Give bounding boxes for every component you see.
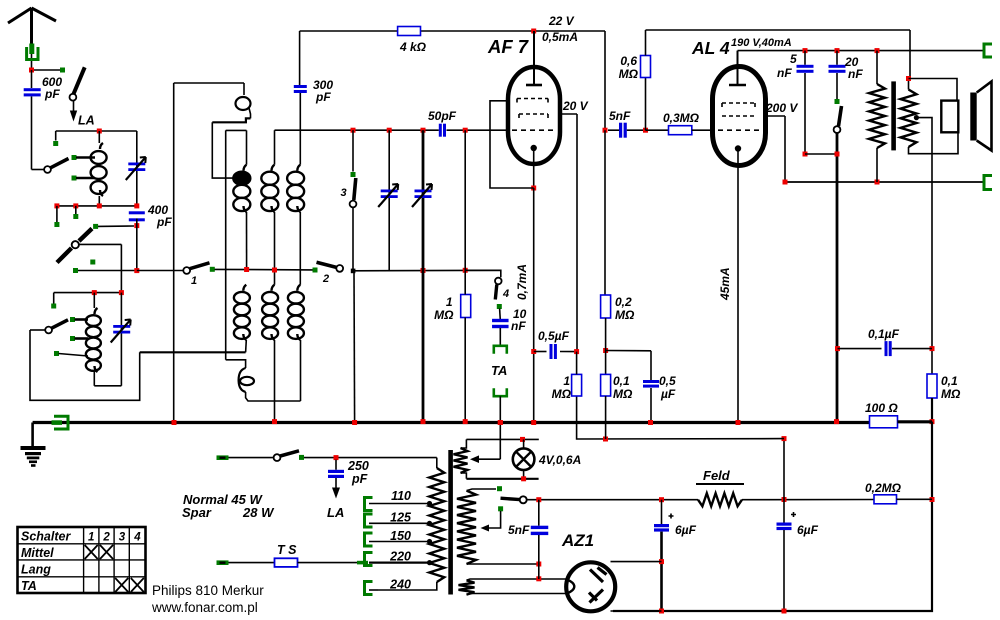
switch pivot tone [834,126,841,133]
wire 1M to bus [464,318,466,422]
wire TS to tap [298,562,363,564]
capacitor 50pF [439,124,442,137]
switch pivot 3 [350,201,357,208]
switch arm 2 [317,262,337,267]
inductor HV winding [457,491,476,564]
wire [534,351,547,353]
wire LW return path [30,330,140,400]
wire tap 220 [369,561,429,563]
wire [464,270,466,294]
terminal TS [217,560,229,565]
table Schalter [18,527,146,593]
wire 5nF [538,500,540,526]
svg-text:6µF: 6µF [797,523,819,537]
wire mains [229,457,274,459]
svg-text:Spar: Spar [182,505,212,520]
wire varcap L1 [136,131,138,206]
junction coil1/coilA [244,267,249,272]
Feld underline [696,483,744,485]
tube AL4 envelope [713,67,766,166]
wire [608,129,619,131]
switch arm 1 [190,263,210,269]
wire primary top [436,458,438,468]
junction [803,152,808,157]
inductor feedback loop coil [239,368,246,392]
AF7 plate [526,84,542,87]
junction [574,349,579,354]
svg-text:2: 2 [102,532,110,544]
wire [576,352,578,375]
terminal arrow 220 [357,561,368,565]
wire to terminal [34,69,60,71]
junction antenna node [29,68,34,73]
AF7 cathode [531,145,537,151]
terminal [53,141,58,146]
wire [499,328,501,346]
wire into coil [98,131,100,143]
wire TA ground [499,396,501,421]
wire coil1 bottom [246,212,248,270]
junction [783,180,788,185]
OT secondary tap [914,115,919,120]
junction [536,562,541,567]
terminal mains switch [217,455,229,460]
LA arrow [332,488,340,499]
speaker cone [977,82,992,151]
tap dot 125 [427,521,432,526]
wire tap down [916,118,932,349]
wire right rail + bottom rail [613,422,932,611]
wire 0.1uF right [892,348,932,350]
wire 0.1uF left [838,348,882,350]
svg-text:0,1: 0,1 [613,374,630,388]
AF7 grid 1 dashed [517,99,548,104]
terminal switch4 [497,304,502,309]
AZ1 anode 2 [589,590,603,603]
inductor IF coil 3 [297,165,300,171]
wire down to LW coil [120,244,122,292]
svg-text:5nF: 5nF [508,523,530,537]
switch pivot LA [70,94,77,101]
wire [836,73,838,99]
wire B+ down [909,30,911,79]
AL4 cathode [735,145,741,151]
svg-text:6µF: 6µF [675,523,697,537]
switch arm 3 [354,178,356,200]
speaker driver [941,101,958,133]
terminal tone switch [835,99,840,104]
terminal TA lower [494,388,507,396]
junction dot switch 2 [351,269,356,274]
svg-text:28 W: 28 W [242,505,275,520]
junction bus [172,420,177,425]
inductor mains primary [429,468,444,582]
svg-text:45mA: 45mA [718,267,732,301]
wire tap 1 [76,156,95,159]
svg-text:MΩ: MΩ [941,387,961,401]
wire coil2 bottom [274,212,276,270]
wire screen chain [604,130,606,295]
antenna [8,8,56,44]
inductor IF coil 2 [272,165,275,171]
wire [804,51,806,65]
wire [804,73,806,154]
junction bus [531,420,536,425]
resistor 0.1 MOhm bias [601,374,611,396]
wire tap to coil1 [212,122,240,178]
junction coil L1 top [97,129,102,134]
junction AZ1 out [659,559,664,564]
resistor 4 kOhm [398,27,421,36]
resistor 0.1 MOhm out [927,374,937,398]
svg-text:250: 250 [347,459,369,473]
wire grid return line [353,269,501,272]
wire 400pF to LW line [136,219,138,271]
tube AZ1 envelope [566,562,615,611]
wire tap 150 [369,541,429,543]
svg-text:MΩ: MΩ [552,387,572,401]
resistor 0.2 MOhm screen [601,295,611,318]
junction [421,268,426,273]
svg-text:AL 4: AL 4 [691,38,730,58]
wire to AL4 grid [692,129,713,131]
junction [875,48,880,53]
svg-text:4: 4 [133,532,141,544]
svg-text:TA: TA [21,579,37,593]
switch arm 4 [495,285,497,300]
svg-text:0,2: 0,2 [615,295,632,309]
wire 1M top [464,130,466,270]
wire lamp top lead [523,439,525,448]
wire switch to LC [79,243,121,245]
plus sign [791,512,796,517]
switch arm mains [280,451,299,456]
switch pivot band [44,166,51,173]
junction [835,48,840,53]
wire coil2 top [274,130,276,165]
svg-text:1: 1 [563,374,570,388]
variable capacitor LW [113,325,130,328]
wire to speaker top [909,79,958,101]
svg-text:MΩ: MΩ [615,308,635,322]
wire coil3 to coilC [299,212,301,285]
wire 6uF down thick [660,532,663,611]
wire [783,439,785,500]
wire to band switch [32,169,45,171]
terminal [54,222,59,227]
svg-text:0,1: 0,1 [941,374,958,388]
svg-text:3: 3 [119,532,126,544]
wire coil L1 top [56,130,137,132]
svg-text:240: 240 [389,578,411,592]
wire coupling top [174,82,244,84]
svg-text:nF: nF [777,66,792,80]
wire varcap LW [120,293,122,386]
wire stub [55,131,57,141]
inductor osc coil A [243,285,246,291]
wire [783,500,785,523]
junction [835,346,840,351]
wire [605,318,607,374]
switch arm wave selector [57,229,92,263]
junction [906,76,911,81]
svg-text:pF: pF [351,472,368,486]
wire to AF7 grid [447,129,509,131]
junction coil2/coilB [272,268,277,273]
junction grid AL4 [643,128,648,133]
wire to TA switch [465,270,501,277]
arrow to 4V winding [479,458,500,460]
wire [661,500,663,524]
inductor osc coil C [297,285,300,291]
wire HT line [527,499,699,501]
wire switch3 [352,130,354,171]
switch arm tone [839,106,842,126]
wire coil L1 bottom rail [57,205,137,207]
svg-text:Lang: Lang [21,563,51,577]
resistor 0.6 MOhm [641,56,651,78]
switch pivot mains [274,454,281,461]
capacitor 5nF coupling [619,123,622,138]
svg-text:1: 1 [88,532,94,544]
OT core [891,81,896,150]
wire tone thick down [836,133,839,422]
switch pivot voltage [520,496,527,503]
switch pivot 4 [495,278,502,285]
inductor 4V winding [454,448,468,473]
wire AL4 plate lead [737,51,739,85]
svg-text:110: 110 [391,489,411,503]
switch arm voltage [501,498,520,499]
svg-text:T S: T S [277,543,297,557]
terminal tap 220 [365,553,373,566]
junction [603,348,608,353]
wire [650,351,652,380]
wire [499,309,502,321]
terminal HV tap [498,506,503,511]
terminal switch3 [351,172,356,177]
wire from bus [499,424,501,459]
wire lamp top [466,438,538,440]
svg-text:www.fonar.com.pl: www.fonar.com.pl [151,600,258,615]
wire switch left [30,329,45,331]
wire B+ top [300,30,605,32]
switch arm band selector [51,159,69,168]
wire AZ1 out bottom [611,610,662,612]
terminal switch1 [210,267,215,272]
svg-text:5: 5 [790,52,797,66]
junction [521,476,526,481]
svg-text:MΩ: MΩ [434,308,454,322]
capacitor 5nF rectifier [531,526,549,529]
svg-text:0,1µF: 0,1µF [868,327,900,341]
wire [606,350,651,352]
switch pivot 2 [336,265,343,272]
capacitor 0.5uF shunt [643,380,659,383]
wire coilC bottom [300,340,302,401]
LA arrow symbol [70,111,77,122]
wire [650,388,652,423]
terminal HV top [497,486,502,491]
inductor AZ1 filament winding [459,580,475,594]
junction bus [736,420,741,425]
terminal wave switch alt [90,260,95,265]
AZ1 filament [567,580,575,594]
junction [536,497,541,502]
junction plate RC [603,128,608,133]
junction bus [498,420,503,425]
junction [119,290,124,295]
svg-text:0,2MΩ: 0,2MΩ [865,481,902,495]
junction [134,268,139,273]
junction [73,203,78,208]
svg-text:0,5: 0,5 [659,374,676,388]
tap dot 150 [427,539,432,544]
junction bus [421,419,426,424]
wire screen to line [784,116,786,182]
svg-text:100 Ω: 100 Ω [865,401,898,415]
wire AL4 screen out [766,115,786,117]
junction [134,203,139,208]
svg-text:0,3MΩ: 0,3MΩ [663,111,700,125]
svg-text:Schalter: Schalter [21,530,71,544]
junction AF7 plate [531,29,536,34]
terminal speaker [984,176,992,190]
capacitor 6uF second [777,523,792,526]
wire to bus [353,271,356,423]
svg-text:3: 3 [341,187,347,199]
capacitor 6uF first [654,524,669,527]
wire [931,398,933,422]
inductor coupling loop [243,83,245,95]
terminal [299,455,304,460]
wire AF7 screen out [560,113,578,115]
svg-text:AZ1: AZ1 [561,531,594,550]
wire 4V top [461,439,467,448]
wire OT primary bottom [876,148,878,182]
svg-text:200 V: 200 V [765,101,798,115]
wire varcap1 [388,130,390,270]
wire band line mid [215,268,314,271]
junction [603,437,608,442]
inductor osc coil B [272,285,275,291]
table X TA 3 [115,578,128,592]
wire lamp bottom lead [523,470,525,479]
svg-text:pF: pF [156,215,172,229]
terminal switch2 [313,268,318,273]
svg-text:0,6: 0,6 [620,54,637,68]
inductor OT primary [869,84,885,148]
svg-text:190 V,40mA: 190 V,40mA [731,37,792,49]
wire stub [56,206,58,222]
svg-text:MΩ: MΩ [619,67,639,81]
wire AL4 cathode rail [737,152,739,423]
tap dot 110 [427,501,432,506]
svg-text:0,5mA: 0,5mA [542,30,578,44]
terminal switch contact [93,224,98,229]
svg-text:4 kΩ: 4 kΩ [399,40,427,54]
wire [560,351,577,353]
terminal [51,304,56,309]
table X TA 4 [131,578,144,592]
wire to loop coil [226,360,246,368]
capacitor 600pF [24,88,41,91]
wire filament bottom [467,594,567,595]
inductor antenna coil L1 [100,143,103,149]
fuse TS [275,558,298,567]
table X Mittel 1 [85,545,98,559]
wire [897,498,933,500]
terminal [73,214,78,219]
switch pivot wave [72,241,79,248]
AF7 grid 2 dashed [519,114,548,118]
terminal tap 240 [365,582,373,595]
junction [782,436,787,441]
junction rail [782,609,787,614]
terminal tap 1 [72,155,77,160]
svg-text:LA: LA [78,114,95,128]
ground bus [33,421,870,424]
resistor 1 MOhm cathode [572,374,582,396]
wire to switch contact [97,225,134,227]
svg-text:0,7mA: 0,7mA [515,264,529,300]
variable capacitor osc 1 [381,190,398,193]
tube AF7 envelope [508,67,560,164]
wire coil1 top [246,130,248,164]
wire coilA bottom [245,340,248,352]
wire tap [59,354,89,357]
wire bus right [898,420,933,423]
wire filament top [467,579,567,580]
svg-text:50pF: 50pF [428,109,457,123]
junction [351,128,356,133]
terminal tap [70,336,75,341]
wire antenna lead [31,36,33,68]
wire AZ1 out top [611,561,662,563]
capacitor 0.1uF [885,341,888,356]
wire LW coil bottom [93,372,95,386]
resistor 100 Ohm [870,416,898,428]
junction bus [834,419,839,424]
inductor OT secondary [901,90,917,148]
inductor longwave coil L2 [95,308,98,314]
svg-text:MΩ: MΩ [613,387,633,401]
junction 400pF bottom [134,223,139,228]
wire primary bottom to 240 [378,582,437,590]
wire AF7 plate lead [533,31,535,85]
wire left rail [173,83,175,423]
capacitor 300pF [294,85,307,88]
junction [930,497,935,502]
svg-text:5nF: 5nF [609,109,631,123]
svg-text:µF: µF [660,387,676,401]
junction [92,290,97,295]
antenna plug socket [27,47,38,60]
capacitor 250pF [328,470,344,473]
wire tap [75,337,89,340]
wire AF7 cathode lead [533,151,535,187]
junction bus [272,419,277,424]
resistor 0.3 MOhm [669,126,692,135]
svg-text:220: 220 [389,550,411,564]
wire [605,396,607,439]
wire [783,530,785,611]
lamp 4V [513,448,535,470]
wire screen feed [604,31,606,130]
svg-text:pF: pF [44,87,60,101]
svg-text:4: 4 [502,288,509,300]
junction bus [463,419,468,424]
